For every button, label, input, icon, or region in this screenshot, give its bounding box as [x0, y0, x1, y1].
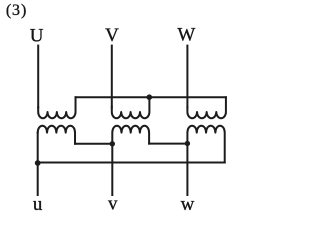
winding S3 (secondary phase w, loops above): [187, 126, 224, 163]
svg-text:v: v: [108, 193, 118, 214]
svg-text:w: w: [181, 194, 195, 215]
wire S2-to-w link: [149, 143, 187, 145]
wire U lead-in: [37, 46, 39, 108]
wire S1-to-v link: [75, 143, 112, 145]
winding P1 (primary phase U, loops below): [38, 97, 75, 118]
junction S2/w node: [185, 141, 190, 146]
winding S2 (secondary phase v, loops above): [112, 126, 149, 144]
svg-text:u: u: [33, 194, 43, 215]
wire delta return rail: [38, 162, 225, 164]
junction star point: [147, 94, 153, 100]
svg-text:W: W: [177, 24, 195, 45]
winding P2 (primary phase V, loops below): [112, 97, 150, 118]
wire star-point bus: [76, 96, 226, 98]
wire W lead-in: [186, 46, 188, 108]
wire terminal u lead: [37, 133, 39, 195]
winding S1 (secondary phase u, loops above): [38, 126, 75, 144]
winding P3 (primary phase W, loops below): [187, 97, 226, 118]
wire V lead-in: [111, 46, 113, 108]
svg-text:(3): (3): [6, 2, 27, 19]
wire terminal w lead: [186, 144, 188, 196]
svg-text:U: U: [30, 25, 44, 46]
junction rail/u node: [35, 160, 41, 166]
svg-text:V: V: [105, 25, 119, 46]
wire terminal v lead: [111, 144, 113, 195]
junction S1/v node: [110, 141, 115, 146]
